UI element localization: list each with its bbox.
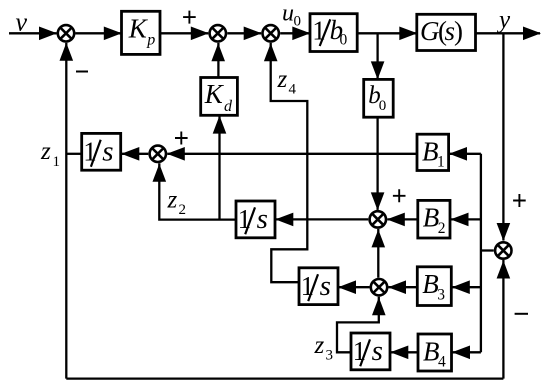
block 1/s integrator row3 (z4)	[299, 268, 338, 305]
wire y branch down to S4	[502, 33, 504, 240]
svg-text:z: z	[40, 138, 51, 165]
wire 1/b0 to G(s)	[357, 32, 417, 34]
wire z2 tap up to Kd	[218, 115, 220, 219]
arrowhead into G(s)	[399, 27, 417, 41]
arrowhead into S2	[191, 27, 209, 41]
arrowhead into 1/b0	[292, 27, 310, 41]
wire distributor to B1	[449, 153, 481, 155]
arrowhead into S2 bottom	[211, 43, 225, 61]
wire 1/s z2 output to S5 (node z2)	[159, 163, 236, 219]
arrowhead into b0	[371, 61, 385, 79]
arrowhead into S6 top	[371, 192, 385, 210]
plus sign at S2 input from Kp	[183, 11, 196, 24]
svg-text:3: 3	[437, 286, 445, 303]
block 1/s integrator z3	[351, 333, 390, 370]
svg-text:p: p	[146, 32, 155, 49]
wire branch down to b0	[376, 33, 378, 79]
wire distributor to B2	[451, 218, 481, 220]
svg-text:1: 1	[437, 154, 445, 171]
svg-text:s: s	[372, 335, 383, 367]
svg-text:0: 0	[340, 32, 348, 49]
arrowhead into S7 bottom	[372, 297, 386, 315]
svg-text:1: 1	[312, 16, 326, 46]
wire S7 up to S6	[377, 229, 379, 278]
block 1/s integrator z2	[236, 201, 275, 238]
wire S5 to 1/s z1	[121, 153, 148, 155]
wire distributor to B4	[452, 351, 481, 353]
wire z3 from 1/s z3 output to S7	[337, 297, 379, 353]
svg-text:4: 4	[438, 354, 446, 371]
wire z4 zigzag from 1/s row3 output up to S3	[271, 43, 308, 282]
wire Kp to S2	[160, 32, 208, 34]
svg-text:2: 2	[179, 202, 187, 218]
wire G(s) to output y	[476, 32, 541, 34]
summing junction S3 (plus z4), output u0	[263, 25, 279, 41]
svg-text:): )	[454, 16, 463, 46]
svg-text:s: s	[102, 135, 113, 167]
arrowhead into S1 bottom (minus)	[60, 43, 74, 61]
svg-text:0: 0	[294, 14, 302, 30]
minus sign at S1 input from z1	[76, 71, 88, 73]
svg-text:s: s	[257, 203, 268, 235]
arrowhead into B1	[449, 147, 467, 161]
wire B2 to S6	[387, 218, 418, 220]
plus sign at S5 input from B1	[175, 132, 188, 145]
arrowhead into 1/s z1	[121, 147, 139, 161]
arrowhead into S4 bottom	[497, 261, 511, 279]
arrowhead into Kd	[213, 116, 227, 134]
wire S7 to 1/s row3	[338, 286, 370, 288]
arrowhead into S6 right	[387, 213, 405, 227]
summing junction S4 (y minus z1)	[495, 242, 511, 258]
wire distributor to B3	[452, 286, 481, 288]
block Kd derivative gain	[201, 78, 238, 116]
svg-text:1: 1	[353, 336, 367, 366]
block Kp proportional gain	[122, 11, 161, 54]
svg-text:z: z	[167, 187, 178, 214]
arrowhead into 1/s z3	[390, 346, 408, 360]
summing junction S1 (v minus z1)	[58, 25, 74, 41]
wire B1 to S5	[167, 153, 417, 155]
svg-text:K: K	[128, 14, 149, 44]
svg-text:d: d	[224, 98, 233, 115]
arrowhead into S1	[39, 27, 57, 41]
wire S2 to S3	[227, 32, 261, 34]
svg-text:G: G	[420, 16, 440, 46]
block b0	[364, 79, 394, 117]
block B4 observer gain	[418, 334, 452, 371]
svg-text:1: 1	[53, 154, 61, 170]
summing junction S5 (B1 plus z2)	[150, 146, 166, 162]
block 1/s integrator z1	[82, 133, 121, 170]
wire S1 to Kp	[76, 32, 122, 34]
wire S4 output to distributor	[481, 249, 494, 251]
arrowhead into B3	[452, 280, 470, 294]
wire S6 to 1/s z2	[275, 218, 368, 220]
block G(s) plant	[417, 14, 476, 50]
wire S3 to 1/b0 (node u0)	[280, 32, 310, 34]
svg-text:1: 1	[301, 271, 315, 301]
svg-text:0: 0	[379, 98, 387, 114]
svg-text:1: 1	[83, 136, 97, 166]
svg-text:1: 1	[238, 204, 252, 234]
svg-text:3: 3	[326, 348, 334, 364]
summing junction S2 (plus Kd)	[210, 25, 226, 41]
wire 1/s z1 output to left column (node z1)	[66, 153, 82, 155]
arrowhead into S3 bottom (z4)	[264, 43, 278, 61]
wire left z1 column	[65, 43, 67, 379]
arrowhead into S4 top	[497, 223, 511, 241]
arrowhead into S5 bottom	[153, 164, 167, 182]
svg-text:y: y	[496, 7, 511, 34]
svg-text:s: s	[320, 270, 331, 302]
svg-text:v: v	[16, 8, 28, 37]
block B1 observer gain	[417, 134, 449, 170]
arrowhead into 1/s z2	[275, 213, 293, 227]
svg-text:u: u	[282, 0, 294, 26]
minus sign at S4 bottom input	[515, 313, 528, 315]
summing junction S6 (b0 plus B2)	[370, 211, 386, 227]
arrowhead output y	[523, 27, 541, 41]
svg-text:z: z	[277, 66, 288, 93]
svg-text:4: 4	[289, 82, 297, 98]
arrowhead into B4	[452, 346, 470, 360]
svg-text:z: z	[314, 332, 325, 359]
wire bottom up to S4 (minus z1)	[502, 260, 504, 379]
svg-text:K: K	[204, 79, 225, 109]
plus sign at S6 top input	[393, 189, 406, 202]
wire distributor column	[480, 154, 482, 352]
wire v input	[9, 32, 57, 34]
arrowhead into S6 bottom	[372, 229, 386, 247]
arrowhead into 1/s row3	[338, 280, 356, 294]
summing junction S7 (B3 plus z3 path)	[371, 279, 387, 295]
wire b0 down to S6	[376, 117, 378, 210]
plus sign at S4 input from y	[513, 194, 526, 207]
svg-text:2: 2	[438, 220, 446, 237]
block 1/b0	[310, 14, 357, 52]
arrowhead into S7 right	[388, 280, 406, 294]
wire bottom z1 to S4	[66, 377, 503, 379]
arrowhead into S3	[244, 27, 262, 41]
wire B4 to 1/s z3	[390, 351, 418, 353]
arrowhead into S5 right	[167, 147, 185, 161]
wire B3 to S7	[389, 286, 418, 288]
wire Kd up to S2	[217, 43, 219, 78]
arrowhead into Kp	[104, 27, 122, 41]
arrowhead into B2	[451, 213, 469, 227]
block B3 observer gain	[417, 267, 451, 306]
block B2 observer gain	[418, 200, 450, 238]
